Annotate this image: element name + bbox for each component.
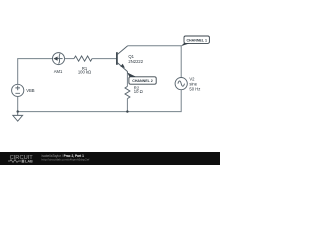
wire: R2 bottom to bottom rail	[126, 99, 128, 112]
voltage source V2	[175, 78, 187, 90]
wire: VBB bottom to ground junction	[17, 97, 19, 112]
transistor Q1 2N2222	[117, 46, 128, 73]
wire: R1 right to Q1 base	[92, 58, 117, 60]
svg-text:10 Ω: 10 Ω	[134, 89, 143, 94]
svg-text:LAB: LAB	[25, 160, 33, 164]
svg-text:VBB: VBB	[26, 88, 35, 93]
ground	[13, 112, 23, 122]
wire: VBB top to top-left corner to AM1 left	[18, 59, 53, 85]
svg-text:2N2222: 2N2222	[128, 59, 143, 64]
junction dot at R2/bottom rail	[126, 110, 128, 112]
svg-text:AM1: AM1	[54, 69, 63, 74]
voltage source VBB	[12, 84, 24, 96]
wire: emitter node down to R2 top	[126, 73, 128, 86]
wire: V2 bottom down and left along bottom rail to ground	[18, 90, 182, 112]
node CHANNEL 2 flag	[127, 72, 156, 84]
wire: collector top rail to right corner	[127, 45, 181, 47]
resistor R1	[74, 56, 92, 61]
svg-text:50 Hz: 50 Hz	[189, 87, 200, 92]
node CHANNEL 1 flag	[181, 36, 210, 46]
wire: right corner down to V2 top	[180, 46, 182, 78]
svg-text:100 kΩ: 100 kΩ	[78, 70, 91, 75]
svg-text:http://circuitlab.com/c4kpmh5d: http://circuitlab.com/c4kpmh5dxp2ef	[42, 158, 90, 162]
footer bar	[0, 152, 220, 165]
CircuitLab logo	[8, 155, 33, 164]
resistor R2	[125, 86, 130, 98]
svg-text:CHANNEL 1: CHANNEL 1	[186, 38, 207, 42]
wire: AM1 right to R1 left	[65, 58, 75, 60]
junction dot at VBB/ground	[17, 110, 19, 112]
ammeter AM1	[53, 53, 65, 65]
svg-text:CHANNEL 2: CHANNEL 2	[132, 79, 153, 83]
